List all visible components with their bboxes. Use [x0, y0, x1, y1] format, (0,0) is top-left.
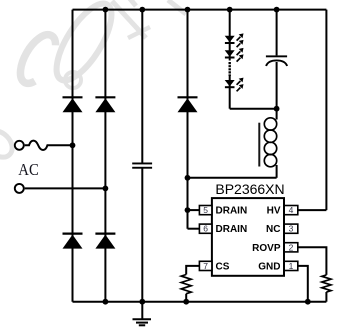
node: bottom rail / bus cap / ground: [139, 299, 145, 305]
wire: DRAIN pin 5 stub: [188, 209, 200, 211]
svg-text:7: 7: [203, 261, 208, 271]
node: inductor bottom / DRAIN line: [185, 175, 191, 181]
svg-text:BP2366XN: BP2366XN: [215, 181, 284, 197]
wire: bus capacitor branch upper: [141, 10, 143, 163]
svg-text:ROVP: ROVP: [252, 243, 281, 254]
wire: freewheeling diode / DRAIN vertical: [187, 10, 189, 229]
LED1: [225, 33, 244, 47]
wire: bridge leg A vertical: [72, 10, 74, 302]
wire: electrolytic cap to inductor node: [276, 62, 278, 120]
pin 5 box: [199, 206, 212, 215]
pin 3 box: [284, 224, 298, 233]
svg-text:AC: AC: [18, 160, 39, 179]
wire: CS pin 7 to resistor: [186, 266, 199, 275]
AC terminal lower: [15, 184, 24, 193]
svg-text:DRAIN: DRAIN: [216, 224, 248, 235]
LED3: [225, 78, 244, 92]
wire: LED bottom horizontal to inductor node: [230, 108, 277, 110]
wire: LED string dotted continuation: [228, 62, 230, 76]
wire: right side HV drop from top rail: [325, 10, 327, 211]
node: AC neutral / leg B: [103, 186, 109, 192]
wire: bottom ground rail: [73, 301, 327, 303]
node: bottom rail / leg B: [103, 299, 109, 305]
pin 7 box: [199, 261, 212, 270]
node: top rail / leg B: [103, 7, 109, 13]
svg-text:5: 5: [203, 205, 208, 215]
node: top rail / bus cap: [139, 7, 145, 13]
svg-text:HV: HV: [267, 206, 281, 217]
svg-text:3: 3: [289, 224, 294, 234]
svg-text:CS: CS: [216, 261, 230, 272]
svg-text:GND: GND: [258, 261, 280, 272]
pin 6 box: [199, 224, 212, 233]
svg-text:NC: NC: [266, 224, 280, 235]
pin 1 box: [284, 261, 298, 270]
wire: inductor bottom horizontal to DRAIN line: [188, 177, 277, 179]
resistor R2 ROVP: [322, 275, 331, 292]
wire: LED string vertical: [229, 10, 231, 61]
svg-text:6: 6: [203, 224, 208, 234]
node: bottom rail / CS resistor: [183, 299, 189, 305]
wire: bridge leg B vertical: [104, 10, 106, 302]
svg-text:4: 4: [289, 205, 294, 215]
node: AC live / leg A: [70, 142, 76, 148]
wire: ROVP pin 2 to resistor: [298, 247, 327, 275]
inductor L1: [259, 118, 276, 167]
pin 4 box: [284, 206, 298, 215]
AC terminal upper: [15, 141, 24, 150]
wire: DRAIN pin 6 stub: [188, 228, 200, 230]
wire: electrolytic cap branch upper: [276, 10, 278, 56]
wire: AC neutral input: [25, 187, 106, 189]
capacitor C1 bus film cap: [132, 163, 152, 169]
wire: AC live input with fuse squiggle: [25, 141, 73, 150]
diode D5 freewheeling: [178, 97, 198, 112]
wire: GND pin 1 to bottom rail: [298, 266, 308, 302]
IC U1 BP2366XN body: [212, 198, 284, 276]
wire: HV pin 4 to right drop: [298, 209, 327, 211]
resistor R1 CS sense: [181, 275, 191, 294]
node: bottom rail / GND pin wire: [305, 299, 311, 305]
wire: inductor bottom lead: [276, 165, 278, 178]
ground symbol: [133, 302, 152, 326]
node: top rail / electrolytic: [274, 7, 280, 13]
wire: CS resistor bottom lead: [185, 294, 187, 302]
wire: LED string lower vertical: [229, 76, 231, 109]
diode D4 bottom-right bridge: [95, 234, 115, 249]
pin 2 box: [284, 243, 298, 252]
node: LED return / inductor top: [274, 106, 280, 112]
node: DRAIN pin 5 junction: [185, 207, 191, 213]
node: top rail / freewheel diode: [185, 7, 191, 13]
svg-text:DRAIN: DRAIN: [216, 206, 248, 217]
LED2: [225, 48, 244, 62]
wire: top positive rail: [73, 9, 327, 11]
diode D2 top-right bridge: [95, 97, 115, 112]
svg-text:2: 2: [289, 242, 294, 252]
svg-text:1: 1: [289, 261, 294, 271]
diode D3 bottom-left bridge: [63, 234, 83, 249]
wire: bus capacitor branch lower: [141, 169, 143, 302]
capacitor C2 output electrolytic: [266, 55, 287, 66]
node: top rail / LED string: [227, 7, 233, 13]
wire: ROVP resistor bottom lead: [325, 292, 327, 302]
diode D1 top-left bridge: [63, 97, 83, 112]
